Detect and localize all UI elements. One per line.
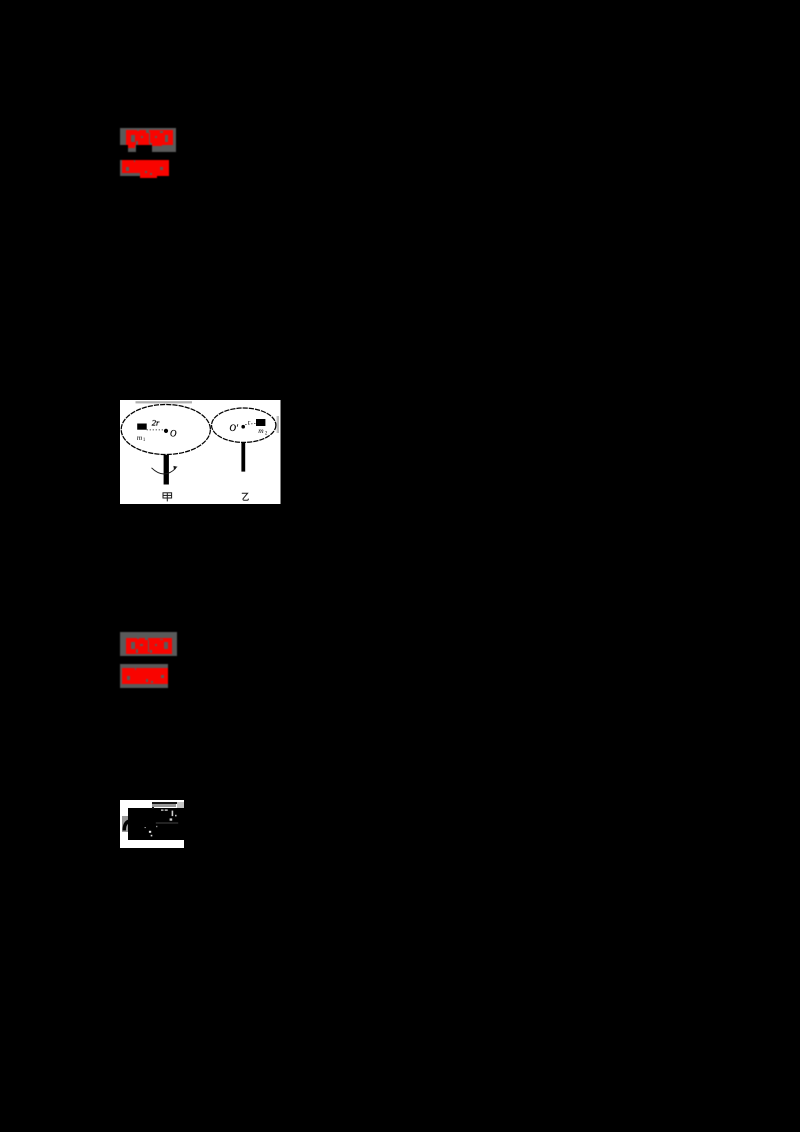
turntable A (left ellipse) <box>121 404 210 454</box>
axis dot O <box>164 428 168 432</box>
small formula image <box>120 800 184 848</box>
rotation arrow <box>152 467 176 473</box>
axis dot O' <box>241 424 245 428</box>
label block 1: red highlighted tag (answer) <box>120 128 176 145</box>
caption A (jia) <box>163 492 172 501</box>
block m2 <box>256 419 265 426</box>
shaft B <box>241 442 245 471</box>
top gray smudge <box>136 401 193 403</box>
dashed radius line A <box>147 428 164 430</box>
label block 2: red highlighted tag (analysis) <box>120 160 168 176</box>
shaft A <box>164 455 169 485</box>
caption B (yi) <box>242 493 249 500</box>
turntable B (right ellipse) <box>212 408 276 442</box>
label block 4: red highlighted tag (analysis) <box>120 664 168 688</box>
label block 3: red highlighted tag (answer) <box>120 632 177 656</box>
dashed radius line B <box>245 423 256 424</box>
block m1 <box>137 423 147 429</box>
right gray sliver <box>277 416 279 433</box>
physics figure: two turntables <box>120 399 281 504</box>
